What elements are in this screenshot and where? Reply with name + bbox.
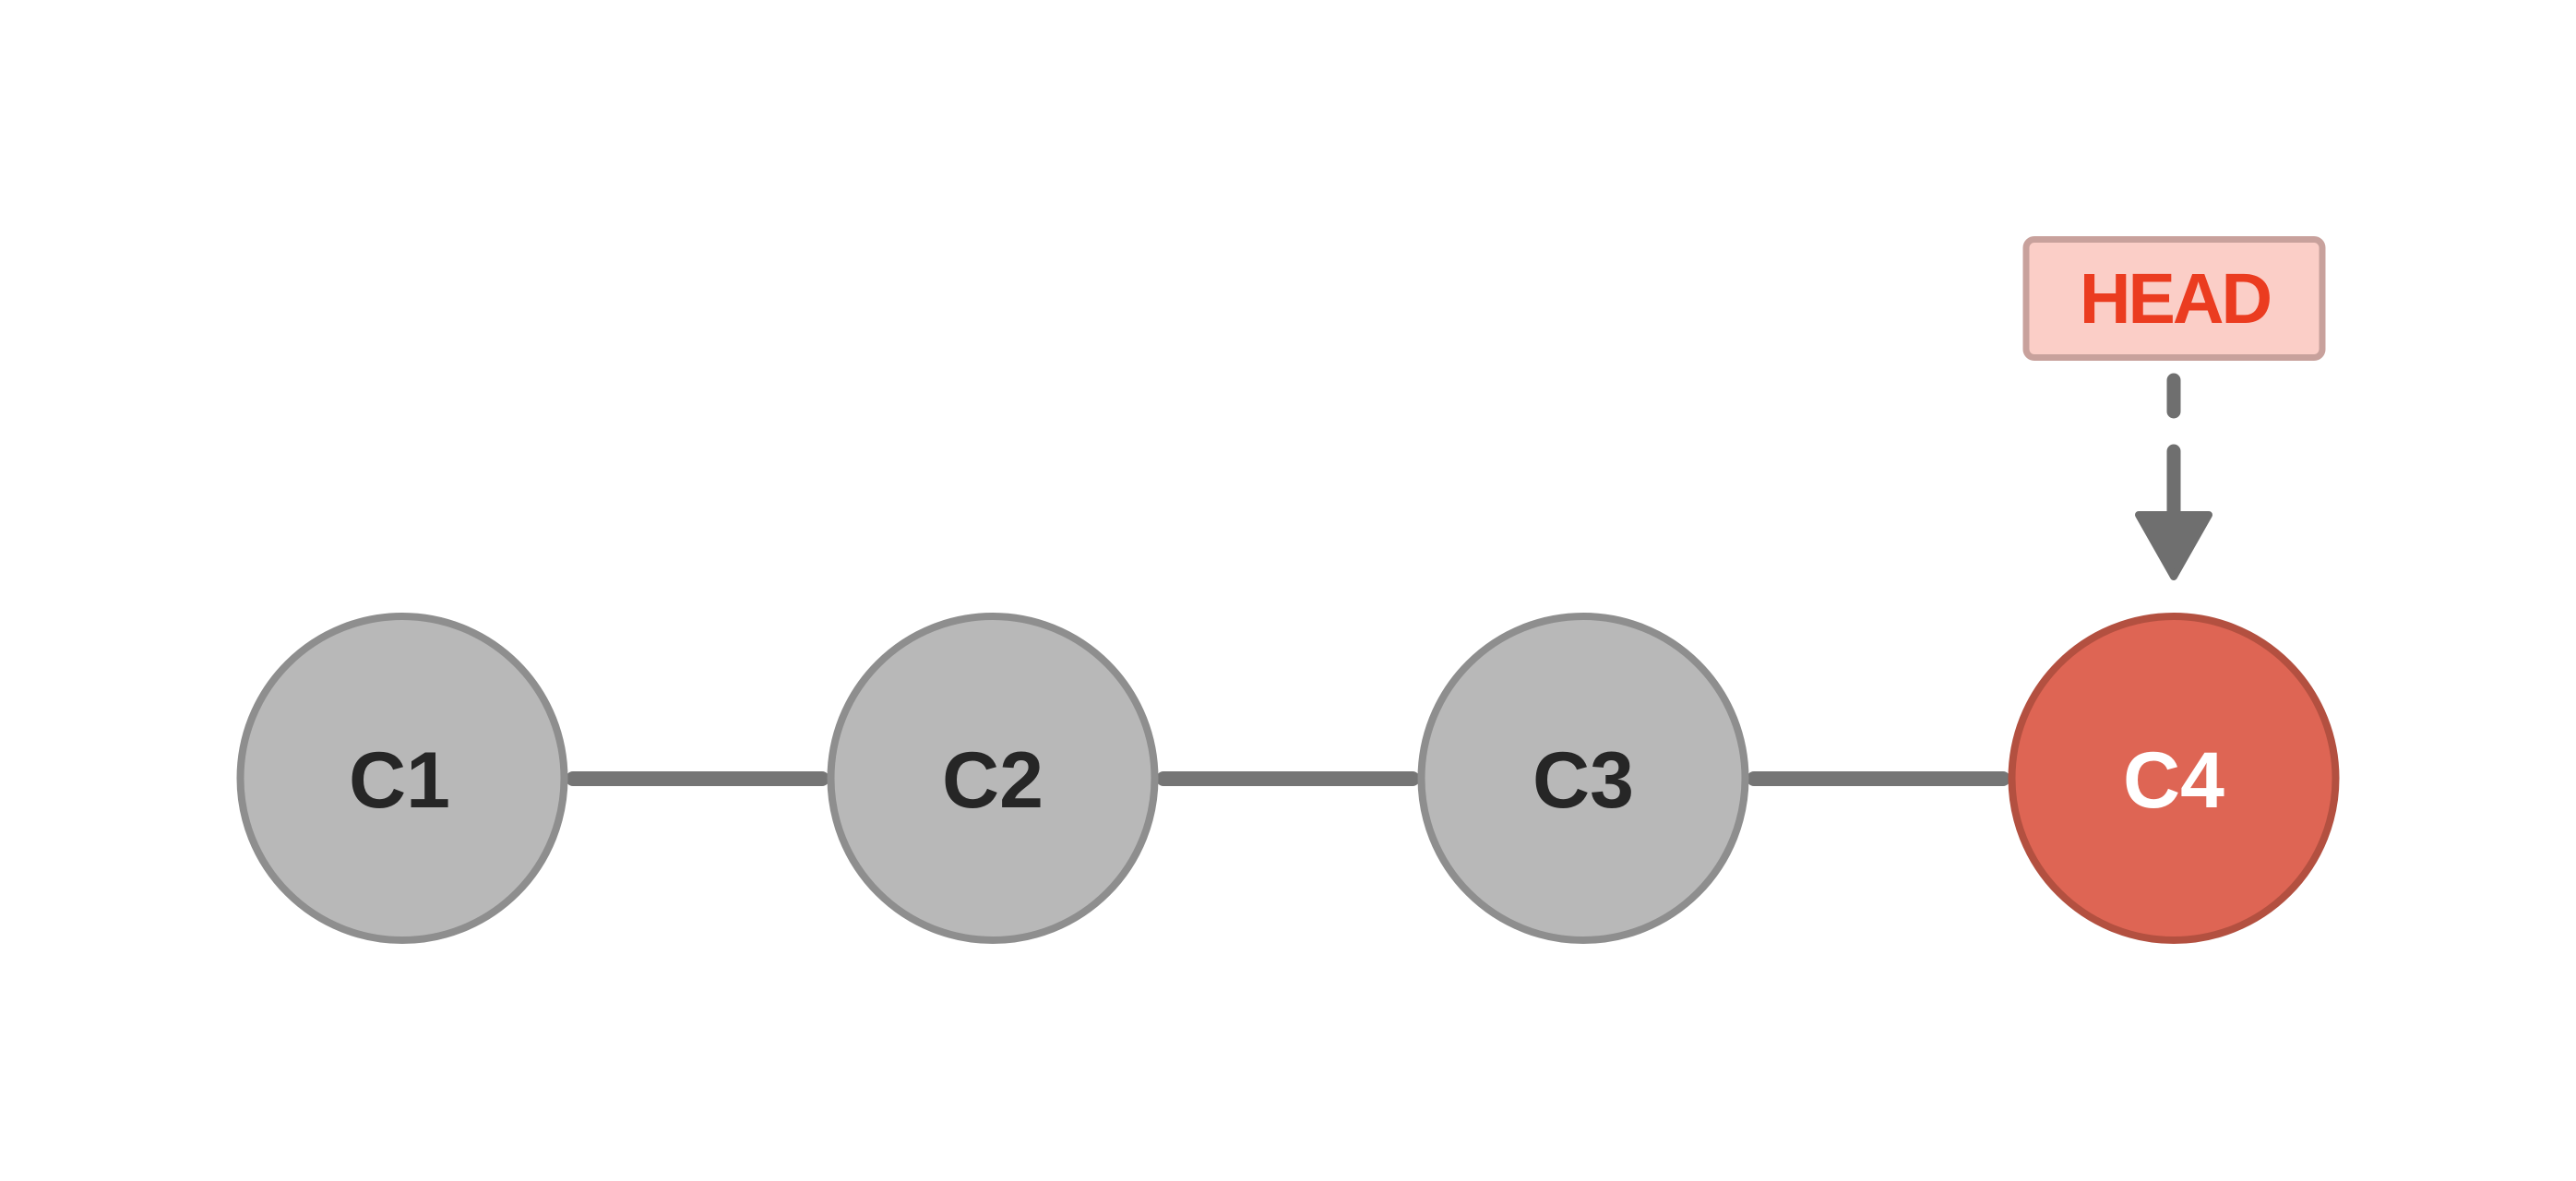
svg-text:C3: C3 [1532, 736, 1634, 825]
svg-text:C4: C4 [2123, 736, 2224, 825]
svg-text:HEAD: HEAD [2080, 259, 2271, 339]
svg-text:C2: C2 [942, 736, 1044, 825]
svg-text:C1: C1 [349, 736, 450, 825]
